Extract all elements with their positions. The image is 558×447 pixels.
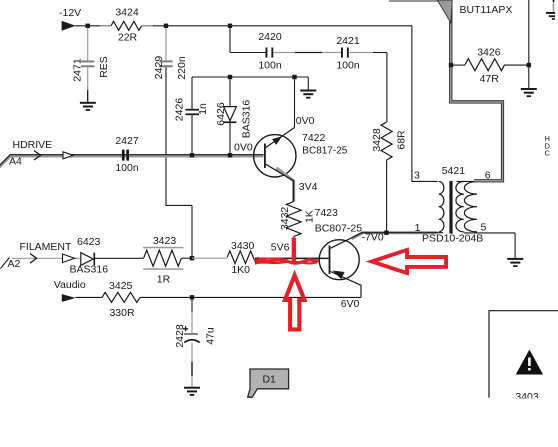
svg-text:2421: 2421: [336, 35, 360, 47]
svg-text:6426: 6426: [215, 102, 227, 126]
svg-text:C: C: [545, 149, 551, 158]
svg-text:2427: 2427: [115, 135, 139, 147]
svg-text:3430: 3430: [231, 240, 255, 252]
svg-text:D1: D1: [262, 374, 276, 386]
svg-text:5421: 5421: [442, 165, 466, 177]
svg-text:A4: A4: [9, 156, 22, 168]
svg-text:100n: 100n: [258, 59, 282, 71]
svg-text:22R: 22R: [118, 31, 138, 43]
svg-text:3426: 3426: [477, 46, 501, 58]
svg-text:-12V: -12V: [59, 7, 81, 19]
svg-text:3V4: 3V4: [299, 181, 318, 193]
svg-text:2420: 2420: [258, 31, 282, 43]
svg-text:3428: 3428: [371, 128, 383, 152]
svg-text:Vaudio: Vaudio: [54, 279, 86, 291]
svg-text:7422: 7422: [302, 132, 326, 144]
svg-text:47u: 47u: [205, 327, 217, 345]
svg-text:330R: 330R: [109, 307, 135, 319]
svg-text:47R: 47R: [480, 73, 500, 85]
svg-text:6423: 6423: [77, 236, 101, 248]
svg-text:3425: 3425: [109, 280, 133, 292]
svg-text:BAS316: BAS316: [240, 100, 252, 139]
svg-text:0V0: 0V0: [234, 142, 253, 154]
svg-text:FILAMENT: FILAMENT: [20, 241, 73, 253]
svg-text:3424: 3424: [115, 7, 139, 19]
svg-text:1n: 1n: [197, 103, 209, 115]
svg-text:100n: 100n: [336, 60, 360, 72]
svg-text:6V0: 6V0: [341, 298, 360, 310]
svg-text:1K0: 1K0: [231, 264, 250, 276]
svg-text:BUT11APX: BUT11APX: [460, 4, 513, 16]
svg-text:3: 3: [414, 170, 420, 182]
svg-text:HDRIVE: HDRIVE: [13, 139, 53, 151]
svg-text:BC807-25: BC807-25: [315, 222, 362, 234]
svg-text:BC817-25: BC817-25: [302, 145, 347, 156]
svg-text:3423: 3423: [153, 235, 177, 247]
svg-text:2429: 2429: [153, 56, 165, 80]
svg-text:100n: 100n: [115, 162, 139, 174]
svg-text:2426: 2426: [173, 98, 185, 122]
svg-text:RES: RES: [98, 56, 110, 78]
svg-text:2428: 2428: [174, 324, 186, 348]
svg-text:A2: A2: [8, 258, 21, 270]
svg-text:220n: 220n: [176, 56, 188, 80]
svg-text:68R: 68R: [395, 130, 407, 150]
svg-text:7423: 7423: [315, 207, 339, 219]
svg-text:5V6: 5V6: [271, 242, 290, 254]
svg-text:-7V0: -7V0: [362, 232, 384, 244]
svg-text:1R: 1R: [157, 274, 171, 286]
svg-text:0V0: 0V0: [296, 115, 315, 127]
svg-text:1: 1: [415, 222, 421, 234]
svg-text:BAS316: BAS316: [70, 264, 109, 276]
svg-text:3432: 3432: [279, 207, 291, 231]
svg-text:2471: 2471: [71, 58, 83, 82]
svg-text:PSD10-204B: PSD10-204B: [422, 232, 483, 244]
